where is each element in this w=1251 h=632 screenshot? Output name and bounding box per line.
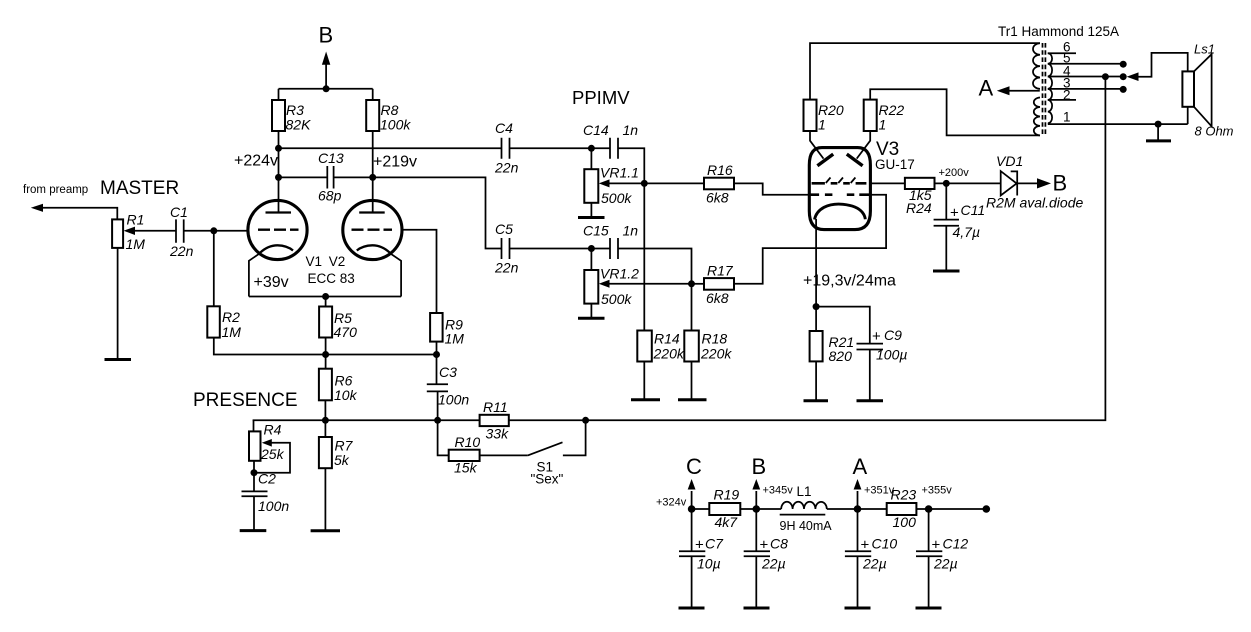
node C1/R2/grid junction bbox=[210, 227, 217, 234]
node R4/C2 junction bbox=[251, 469, 258, 476]
resistor R24 bbox=[905, 178, 935, 189]
wire R6 stem bbox=[325, 355, 327, 369]
svg-text:+355v: +355v bbox=[922, 485, 953, 497]
svg-text:22µ: 22µ bbox=[862, 556, 887, 572]
svg-text:15k: 15k bbox=[454, 460, 478, 476]
svg-text:1n: 1n bbox=[623, 223, 639, 239]
wire output to preamp with arrow bbox=[34, 208, 117, 220]
wire PSU rail bbox=[692, 508, 987, 510]
node R17/VR1.2 wiper junction bbox=[688, 280, 695, 287]
potentiometer R1 bbox=[112, 219, 123, 248]
svg-text:C1: C1 bbox=[170, 204, 188, 220]
svg-text:1: 1 bbox=[879, 117, 887, 133]
resistor R14 bbox=[637, 331, 652, 362]
Tr1 core bbox=[1043, 43, 1046, 136]
wire tap 4 bbox=[1048, 76, 1123, 78]
wire tap 6 bbox=[1048, 52, 1076, 54]
capacitor C3 bbox=[427, 384, 448, 391]
wire tap 2 bbox=[1048, 99, 1076, 101]
node R9/C3 tail junction bbox=[433, 351, 440, 358]
svg-text:C11: C11 bbox=[961, 202, 986, 218]
node +224v C13 bbox=[275, 174, 282, 181]
svg-text:R1: R1 bbox=[127, 212, 145, 228]
wire R3 stem bbox=[278, 89, 280, 100]
node R5 tail junction bbox=[322, 351, 329, 358]
svg-text:PRESENCE: PRESENCE bbox=[193, 390, 298, 411]
wire R5 bottom to tail bbox=[325, 338, 327, 355]
svg-text:R4: R4 bbox=[264, 422, 282, 438]
wire C5 to C15 junction bbox=[510, 248, 611, 250]
svg-text:R17: R17 bbox=[707, 263, 734, 279]
svg-text:8 Ohm: 8 Ohm bbox=[1195, 124, 1234, 139]
wire speaker bottom bbox=[1187, 107, 1189, 124]
svg-text:C10: C10 bbox=[872, 536, 898, 552]
wire screen to R24 bbox=[870, 182, 905, 184]
svg-text:+: + bbox=[760, 537, 769, 554]
svg-text:100µ: 100µ bbox=[876, 347, 907, 363]
triode V2 bbox=[343, 200, 402, 296]
arrow C up bbox=[691, 491, 693, 509]
wire R17 left bbox=[692, 283, 705, 285]
node C14/VR1.1 junction bbox=[588, 145, 595, 152]
capacitor C11 polarized bbox=[934, 220, 959, 226]
resistor R6 bbox=[319, 369, 332, 401]
node speaker ground junction bbox=[1155, 121, 1162, 128]
svg-text:1: 1 bbox=[818, 117, 826, 133]
wire C15 out down to R18 bbox=[618, 249, 692, 331]
svg-text:B: B bbox=[319, 23, 334, 48]
V3 anode lead 1 bbox=[810, 131, 824, 159]
svg-text:R2M aval.diode: R2M aval.diode bbox=[986, 195, 1083, 211]
svg-text:R2: R2 bbox=[222, 309, 240, 325]
wire presence rail left part bbox=[253, 419, 480, 421]
svg-text:+219v: +219v bbox=[373, 154, 417, 171]
capacitor C2 bbox=[242, 491, 268, 496]
svg-text:C5: C5 bbox=[495, 221, 513, 237]
ground bbox=[105, 358, 132, 361]
ground bbox=[1146, 139, 1171, 142]
wire R24 to VD1 bbox=[935, 182, 1001, 184]
wire tap 5 bbox=[1048, 63, 1123, 65]
svg-text:10k: 10k bbox=[334, 387, 358, 403]
wire R21 to ground bbox=[815, 361, 817, 400]
svg-text:22µ: 22µ bbox=[761, 556, 786, 572]
node rail end terminal bbox=[983, 505, 991, 513]
svg-text:22n: 22n bbox=[494, 260, 519, 276]
capacitor C1 bbox=[176, 219, 184, 242]
svg-text:C4: C4 bbox=[495, 120, 513, 136]
wire VR1.2 bottom to ground bbox=[590, 304, 592, 318]
svg-text:9H 40mA: 9H 40mA bbox=[780, 519, 833, 533]
svg-text:1: 1 bbox=[1063, 110, 1071, 125]
svg-text:+324v: +324v bbox=[656, 497, 687, 509]
resistor R16 bbox=[704, 178, 734, 190]
svg-text:25k: 25k bbox=[260, 446, 285, 462]
capacitor C13 bbox=[327, 166, 333, 189]
wire R1 wiper from C1 bbox=[133, 230, 176, 232]
svg-text:C8: C8 bbox=[770, 536, 788, 552]
wire +224v to C4 bbox=[279, 147, 502, 149]
capacitor C15 bbox=[610, 238, 618, 259]
wire tap 3 bbox=[1048, 88, 1123, 90]
wire cathode node to C9 bbox=[816, 307, 870, 344]
svg-text:VR1.1: VR1.1 bbox=[600, 165, 639, 181]
potentiometer VR1.1 bbox=[584, 169, 598, 203]
svg-text:220k: 220k bbox=[700, 346, 732, 362]
V3 anode plate 2 bbox=[847, 154, 863, 166]
ground bbox=[311, 529, 340, 532]
wire feedback line bbox=[586, 77, 1106, 421]
wire Tr1 center tap A bbox=[1006, 90, 1040, 92]
resistor R19 bbox=[709, 503, 740, 515]
svg-text:500k: 500k bbox=[601, 190, 632, 206]
ground bbox=[744, 607, 770, 610]
svg-text:A: A bbox=[979, 76, 994, 101]
node tap 4 terminal bbox=[1120, 73, 1127, 80]
wire C11 to ground bbox=[945, 226, 947, 271]
wire C13 link bbox=[279, 176, 373, 178]
wire R10 to switch bbox=[480, 454, 528, 456]
wire R8 bottom to V2 anode bbox=[372, 131, 374, 212]
ground bbox=[631, 398, 660, 401]
svg-text:+: + bbox=[932, 537, 941, 554]
resistor R8 bbox=[366, 100, 379, 131]
svg-text:33k: 33k bbox=[486, 426, 510, 442]
wire R10 branch bbox=[438, 420, 449, 455]
wire R3 bottom to V1 anode bbox=[278, 131, 280, 212]
wire VR1.2 stem bbox=[590, 249, 592, 271]
wire speaker top to tap 4 arrow bbox=[1135, 53, 1188, 77]
wire R22 to transformer primary bottom bbox=[870, 89, 1040, 135]
Tr1 secondary winding bbox=[1048, 53, 1052, 123]
resistor R10 bbox=[449, 450, 480, 461]
node +224v C4 bbox=[275, 145, 282, 152]
svg-text:VD1: VD1 bbox=[996, 153, 1023, 169]
wire R4 bottom to C2 bbox=[253, 461, 255, 491]
svg-text:1M: 1M bbox=[222, 324, 242, 340]
capacitor C4 bbox=[502, 138, 510, 159]
wire R16 to V3 grid1 bbox=[734, 183, 810, 194]
svg-text:820: 820 bbox=[829, 348, 853, 364]
svg-text:R10: R10 bbox=[455, 434, 481, 450]
ground bbox=[916, 607, 942, 610]
capacitor C8 bbox=[755, 509, 757, 551]
wire V3 cathode down bbox=[815, 219, 817, 331]
svg-text:68p: 68p bbox=[318, 188, 342, 204]
svg-text:22µ: 22µ bbox=[933, 556, 958, 572]
ground bbox=[578, 216, 605, 219]
svg-text:+: + bbox=[695, 537, 704, 554]
ground bbox=[933, 270, 960, 273]
svg-text:R14: R14 bbox=[654, 331, 680, 347]
svg-text:R19: R19 bbox=[714, 487, 740, 503]
svg-text:R23: R23 bbox=[891, 487, 917, 503]
ground bbox=[857, 399, 884, 402]
svg-text:100n: 100n bbox=[258, 498, 289, 514]
V3 screen grid dashes bbox=[812, 182, 867, 185]
node C feed bbox=[688, 505, 696, 513]
wire R2 bottom to tail rail bbox=[214, 338, 437, 355]
svg-text:R24: R24 bbox=[906, 200, 932, 216]
svg-text:from preamp: from preamp bbox=[23, 184, 88, 196]
speaker Ls1 bbox=[1182, 54, 1211, 126]
V3 control grid dashes bbox=[809, 193, 869, 196]
node C3 presence junction bbox=[434, 417, 441, 424]
svg-text:+19,3v/24ma: +19,3v/24ma bbox=[803, 273, 896, 290]
ground bbox=[578, 317, 605, 320]
wire cathodes joined bbox=[249, 296, 401, 298]
wire R6 bottom to presence rail bbox=[324, 400, 326, 420]
capacitor C14 bbox=[610, 138, 618, 159]
diode VD1 avalanche bbox=[1001, 171, 1018, 195]
potentiometer R4 bbox=[249, 431, 261, 460]
svg-text:C12: C12 bbox=[943, 536, 969, 552]
svg-text:L1: L1 bbox=[797, 484, 812, 499]
svg-text:"Sex": "Sex" bbox=[531, 472, 564, 487]
resistor R18 bbox=[684, 331, 699, 362]
wire VD1 to B arrow bbox=[1016, 182, 1042, 184]
svg-text:GU-17: GU-17 bbox=[875, 157, 915, 172]
wire switch contact to junction bbox=[563, 420, 586, 455]
resistor R5 bbox=[319, 307, 332, 338]
V3 anode plate 1 bbox=[817, 154, 833, 166]
arrow B up bbox=[325, 63, 327, 89]
V3 cathode arc bbox=[815, 204, 866, 219]
wire VR1.1 wiper bbox=[607, 182, 645, 184]
node R6/R7 presence junction bbox=[322, 417, 329, 424]
ground bbox=[240, 529, 267, 532]
resistor R22 bbox=[864, 100, 877, 131]
svg-text:C15: C15 bbox=[583, 223, 609, 239]
svg-text:10µ: 10µ bbox=[697, 556, 721, 572]
node cathode/R21/C9 bbox=[813, 303, 820, 310]
svg-text:C: C bbox=[686, 454, 702, 479]
svg-text:C13: C13 bbox=[318, 150, 344, 166]
capacitor C9 polarized bbox=[857, 344, 884, 350]
wire top rail bbox=[279, 88, 373, 90]
svg-text:PPIMV: PPIMV bbox=[572, 87, 630, 108]
wire R14 to ground bbox=[643, 362, 645, 400]
triode V1 bbox=[248, 200, 307, 296]
svg-text:B: B bbox=[1053, 171, 1068, 196]
resistor R23 bbox=[887, 503, 917, 515]
wire C1 to V1 grid bbox=[184, 230, 249, 232]
resistor R7 bbox=[319, 437, 332, 468]
svg-text:6k8: 6k8 bbox=[706, 290, 729, 306]
svg-text:C9: C9 bbox=[884, 327, 902, 343]
ground bbox=[679, 607, 705, 610]
resistor R20 bbox=[804, 100, 817, 131]
svg-text:500k: 500k bbox=[601, 291, 632, 307]
resistor R21 bbox=[810, 331, 823, 361]
wire C11 stem bbox=[945, 183, 947, 219]
wire R17 to V3 grid2 bbox=[734, 195, 886, 284]
svg-text:ECC 83: ECC 83 bbox=[308, 271, 355, 286]
Tr1 primary winding lower bbox=[1034, 98, 1040, 136]
wire R7 bottom to ground bbox=[324, 468, 326, 530]
node R11/S1/feedback junction bbox=[582, 417, 589, 424]
wire ground stem bbox=[1157, 124, 1159, 140]
wire junction down to R2 bbox=[213, 231, 215, 306]
ground bbox=[678, 398, 707, 401]
wire C14 out down to R14 bbox=[618, 148, 644, 330]
svg-text:C2: C2 bbox=[258, 471, 276, 487]
wire VR1.2 wiper bbox=[607, 283, 692, 285]
svg-text:C7: C7 bbox=[705, 536, 724, 552]
wire R20 to transformer primary top bbox=[810, 43, 1040, 100]
svg-text:+200v: +200v bbox=[939, 167, 970, 179]
switch S1 lever bbox=[528, 442, 563, 455]
inductor L1 bbox=[781, 502, 827, 509]
svg-text:100k: 100k bbox=[380, 117, 411, 133]
svg-text:Ls1: Ls1 bbox=[1194, 42, 1215, 57]
node B rail junction bbox=[323, 85, 330, 92]
svg-text:1n: 1n bbox=[623, 122, 639, 138]
capacitor C7 bbox=[691, 509, 693, 551]
arrow A up bbox=[857, 491, 859, 509]
node B feed bbox=[753, 505, 761, 513]
node after R23 bbox=[925, 505, 933, 513]
wire R16 left bbox=[644, 182, 704, 184]
svg-text:470: 470 bbox=[334, 324, 358, 340]
wire cathode to R5 bbox=[325, 297, 327, 307]
svg-text:R16: R16 bbox=[707, 162, 733, 178]
svg-text:+: + bbox=[872, 328, 881, 345]
wire VR1.1 bottom to ground bbox=[590, 203, 592, 217]
node tap 3 terminal bbox=[1120, 86, 1127, 93]
wire R9 bottom to tail rail bbox=[436, 342, 438, 355]
tetrode V3 envelope bbox=[809, 148, 870, 230]
potentiometer VR1.2 bbox=[584, 270, 598, 304]
svg-text:5k: 5k bbox=[334, 452, 350, 468]
capacitor C12 bbox=[928, 509, 930, 551]
node A feed bbox=[854, 505, 862, 513]
wire R1 bottom to ground bbox=[117, 248, 119, 359]
wire C2 to ground bbox=[253, 496, 255, 530]
resistor R17 bbox=[704, 278, 734, 290]
svg-text:22n: 22n bbox=[169, 243, 194, 259]
svg-text:4,7µ: 4,7µ bbox=[953, 224, 981, 240]
capacitor C5 bbox=[502, 238, 510, 259]
node tap 5 terminal bbox=[1120, 61, 1127, 68]
resistor R2 bbox=[207, 306, 220, 337]
svg-text:+39v: +39v bbox=[254, 274, 289, 291]
node cathode junction bbox=[322, 293, 329, 300]
capacitor C10 bbox=[857, 509, 859, 551]
svg-text:MASTER: MASTER bbox=[100, 178, 179, 199]
svg-text:1M: 1M bbox=[126, 236, 146, 252]
V3 screen grid ticks bbox=[826, 178, 856, 184]
svg-text:VR1.2: VR1.2 bbox=[600, 265, 639, 281]
svg-text:C14: C14 bbox=[583, 122, 609, 138]
svg-text:R11: R11 bbox=[483, 399, 508, 415]
wire +219v route to C5 bbox=[373, 177, 502, 248]
wire V2 grid to R9 bbox=[402, 230, 437, 313]
svg-text:6k8: 6k8 bbox=[706, 190, 729, 206]
svg-text:R18: R18 bbox=[702, 331, 728, 347]
svg-text:+: + bbox=[950, 205, 959, 222]
resistor R9 bbox=[430, 313, 443, 342]
svg-text:+: + bbox=[861, 537, 870, 554]
svg-text:100n: 100n bbox=[438, 392, 469, 408]
svg-text:82K: 82K bbox=[286, 117, 312, 133]
node +219v C13 bbox=[369, 174, 376, 181]
svg-text:100: 100 bbox=[893, 514, 917, 530]
wire C3 stem from tail bbox=[436, 355, 438, 385]
svg-text:1M: 1M bbox=[445, 331, 465, 347]
wire C9 to ground bbox=[869, 350, 871, 401]
wire R18 to ground bbox=[691, 362, 693, 400]
resistor R11 bbox=[480, 415, 509, 426]
wire tap 1 to speaker bbox=[1048, 123, 1188, 125]
svg-text:A: A bbox=[853, 454, 868, 479]
svg-text:+224v: +224v bbox=[234, 153, 278, 170]
wire C4 to C14 junction bbox=[510, 147, 611, 149]
resistor R3 bbox=[272, 100, 285, 131]
wire R7 stem bbox=[324, 420, 326, 437]
svg-text:C3: C3 bbox=[439, 364, 457, 380]
Tr1 primary winding upper bbox=[1033, 43, 1040, 89]
svg-text:2: 2 bbox=[1063, 88, 1071, 103]
svg-text:V1 V2: V1 V2 bbox=[306, 254, 346, 269]
wire R11 to S1 junction bbox=[509, 419, 586, 421]
svg-text:22n: 22n bbox=[494, 160, 519, 176]
svg-text:+345v: +345v bbox=[763, 485, 794, 497]
svg-text:220k: 220k bbox=[653, 346, 685, 362]
ground bbox=[804, 399, 829, 402]
svg-text:B: B bbox=[752, 454, 767, 479]
L1 core line bbox=[780, 514, 826, 516]
node C15/VR1.2 junction bbox=[588, 245, 595, 252]
wire R4 wiper loop to bottom bbox=[254, 443, 290, 473]
V3 anode lead 2 bbox=[857, 131, 871, 159]
node tap 4 feedback junction bbox=[1102, 73, 1109, 80]
wire VR1.1 stem bbox=[590, 148, 592, 169]
arrow B up bbox=[755, 491, 757, 509]
wire C3 bottom to presence rail bbox=[437, 391, 439, 420]
wire R8 stem bbox=[372, 89, 374, 100]
node R16/VR1.1 wiper junction bbox=[641, 180, 648, 187]
ground bbox=[845, 607, 871, 610]
node +200v bbox=[943, 180, 950, 187]
svg-text:4k7: 4k7 bbox=[715, 514, 739, 530]
svg-text:Tr1 Hammond 125A: Tr1 Hammond 125A bbox=[998, 24, 1119, 39]
wire presence rail down to R4 bbox=[253, 420, 255, 431]
